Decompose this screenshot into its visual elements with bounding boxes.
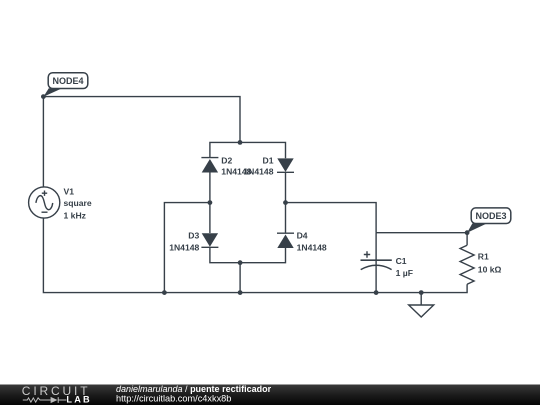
ground stem <box>420 293 422 305</box>
node NODE3 pointer <box>467 223 487 232</box>
capacitor C1 bottom plate arc <box>361 265 392 269</box>
svg-text:NODE3: NODE3 <box>475 211 506 221</box>
junction node4 <box>41 94 46 99</box>
svg-text:LAB: LAB <box>66 395 91 405</box>
wire bridge right vertical middle <box>285 173 287 234</box>
diode D2 cathode bar <box>201 157 218 159</box>
diode D4 triangle <box>277 235 293 249</box>
voltage source V1 circle <box>29 187 60 218</box>
wire bridge bottom tap <box>239 263 241 293</box>
svg-text:NODE4: NODE4 <box>52 76 83 86</box>
svg-text:10 kΩ: 10 kΩ <box>478 264 502 274</box>
node NODE3 label <box>471 208 511 224</box>
V1 minus sign <box>42 211 48 213</box>
wire bridge top <box>210 142 286 158</box>
junction rail ground <box>419 290 424 295</box>
svg-text:1N4148: 1N4148 <box>243 167 273 177</box>
svg-text:R1: R1 <box>478 252 489 262</box>
wire C1 vertical lead <box>375 233 377 293</box>
svg-text:D3: D3 <box>188 231 199 241</box>
svg-text:1 kHz: 1 kHz <box>64 210 86 220</box>
junction rail C1 <box>374 290 379 295</box>
resistor R1 zigzag <box>460 245 474 284</box>
V1 plus sign <box>42 191 47 196</box>
junction bridge bottom <box>238 260 243 265</box>
footer logo resistor-diode glyph <box>23 397 67 403</box>
svg-text:square: square <box>64 198 92 208</box>
ground triangle <box>409 305 434 317</box>
wire V1 top lead <box>42 97 44 187</box>
diode D3 triangle <box>202 233 218 247</box>
diode D3 cathode bar <box>201 246 218 248</box>
svg-text:1N4148: 1N4148 <box>169 242 199 252</box>
wire R1 top lead <box>466 233 468 246</box>
V1 sine wave <box>36 196 53 210</box>
wire V1 bottom lead and bottom rail <box>43 218 467 293</box>
footer bar <box>0 385 540 405</box>
svg-text:D4: D4 <box>297 231 308 241</box>
svg-text:D2: D2 <box>221 156 232 166</box>
svg-text:http://circuitlab.com/c4xkx8b: http://circuitlab.com/c4xkx8b <box>116 393 231 403</box>
svg-text:D1: D1 <box>263 156 274 166</box>
diode D2 triangle <box>202 159 218 173</box>
capacitor C1 top plate <box>361 259 392 261</box>
footer logo diode arrow <box>51 397 58 403</box>
svg-text:1N4148: 1N4148 <box>297 242 327 252</box>
wire NODE4 top horizontal <box>43 97 240 143</box>
svg-text:C1: C1 <box>396 256 407 266</box>
diode D1 triangle <box>277 158 293 172</box>
wire bridge bottom <box>210 248 286 263</box>
diode D4 cathode bar <box>277 232 294 234</box>
diode D1 cathode bar <box>277 171 294 173</box>
wire left mid branch <box>164 203 210 293</box>
svg-text:1 µF: 1 µF <box>396 268 413 278</box>
wire right mid branch <box>286 203 377 233</box>
wire bridge left vertical middle <box>209 173 211 234</box>
node NODE4 label <box>48 73 88 89</box>
junction bridge left mid <box>208 200 213 205</box>
junction node3 <box>465 230 470 235</box>
C1 plus sign <box>364 251 370 257</box>
junction bridge top <box>238 140 243 145</box>
junction bridge right mid <box>283 200 288 205</box>
svg-text:V1: V1 <box>64 186 75 196</box>
junction rail center <box>238 290 243 295</box>
wire node3 horizontal <box>376 232 467 234</box>
node NODE4 pointer <box>43 88 62 96</box>
junction rail left <box>162 290 167 295</box>
